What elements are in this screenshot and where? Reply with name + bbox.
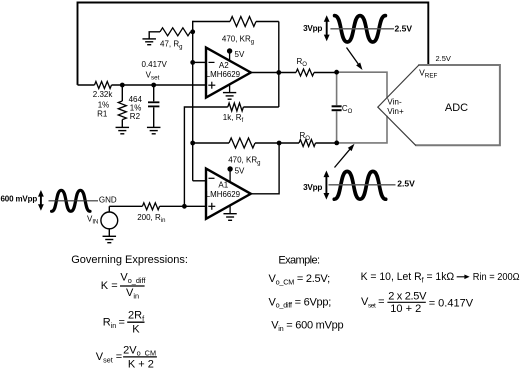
svg-text:Vin: Vin [126, 287, 139, 300]
svg-text:ADC: ADC [445, 102, 468, 114]
svg-text:3Vpp: 3Vpp [303, 24, 322, 33]
svg-text:2.5V: 2.5V [397, 179, 415, 189]
svg-text:5V: 5V [235, 167, 245, 176]
svg-text:470, KRg: 470, KRg [222, 35, 254, 46]
svg-text:5V: 5V [235, 50, 245, 59]
svg-text:K =: K = [101, 280, 118, 292]
svg-text:LMH6629: LMH6629 [206, 70, 241, 79]
svg-text:Vo_diff: Vo_diff [120, 272, 146, 285]
svg-text:Rin =: Rin = [103, 317, 125, 330]
svg-text:600 mVpp: 600 mVpp [1, 195, 38, 204]
svg-text:10 + 2: 10 + 2 [390, 303, 421, 315]
svg-text:A2: A2 [219, 61, 229, 70]
svg-text:2Vo_CM: 2Vo_CM [123, 344, 156, 357]
svg-text:Vin+: Vin+ [387, 107, 404, 116]
svg-text:2.32k: 2.32k [93, 90, 114, 99]
svg-text:200, Rin: 200, Rin [137, 213, 165, 224]
svg-text:3Vpp: 3Vpp [303, 183, 322, 192]
svg-text:Vset: Vset [146, 71, 160, 82]
svg-text:47, Rg: 47, Rg [160, 39, 182, 50]
svg-text:2.5V: 2.5V [436, 54, 451, 63]
svg-text:Vin-: Vin- [387, 98, 402, 107]
svg-text:1k, Rf: 1k, Rf [223, 113, 244, 124]
svg-text:R2: R2 [130, 112, 141, 121]
svg-text:Governing Expressions:: Governing Expressions: [71, 254, 188, 266]
svg-text:Vin = 600 mVpp: Vin = 600 mVpp [271, 320, 343, 333]
svg-text:VREF: VREF [419, 68, 437, 80]
svg-text:1%: 1% [98, 101, 110, 110]
svg-text:K + 2: K + 2 [128, 359, 154, 370]
svg-text:K = 10, Let Rf = 1kΩ: K = 10, Let Rf = 1kΩ [361, 271, 455, 284]
svg-text:Vo_CM = 2.5V;: Vo_CM = 2.5V; [269, 273, 331, 286]
svg-text:A1: A1 [218, 181, 228, 190]
svg-text:Rin = 200Ω: Rin = 200Ω [473, 272, 520, 283]
svg-text:2 x 2.5V: 2 x 2.5V [388, 291, 427, 303]
svg-text:= 0.417V: = 0.417V [429, 297, 474, 309]
svg-text:K: K [132, 324, 140, 336]
svg-text:VIN: VIN [87, 215, 98, 226]
svg-text:Vset =: Vset = [96, 351, 122, 364]
svg-text:LMH6629: LMH6629 [206, 190, 241, 199]
svg-text:R1: R1 [97, 109, 108, 118]
svg-text:RO: RO [297, 57, 308, 68]
svg-text:2.5V: 2.5V [395, 23, 413, 33]
svg-text:0.417V: 0.417V [142, 60, 168, 69]
svg-text:GND: GND [99, 195, 117, 204]
svg-text:470, KRg: 470, KRg [228, 156, 260, 167]
svg-text:Vo_diff = 6Vpp;: Vo_diff = 6Vpp; [269, 296, 332, 309]
svg-text:Vset =: Vset = [361, 296, 384, 309]
svg-text:CO: CO [342, 104, 353, 115]
svg-text:Example:: Example: [278, 255, 320, 267]
svg-text:2Rf: 2Rf [128, 310, 145, 323]
